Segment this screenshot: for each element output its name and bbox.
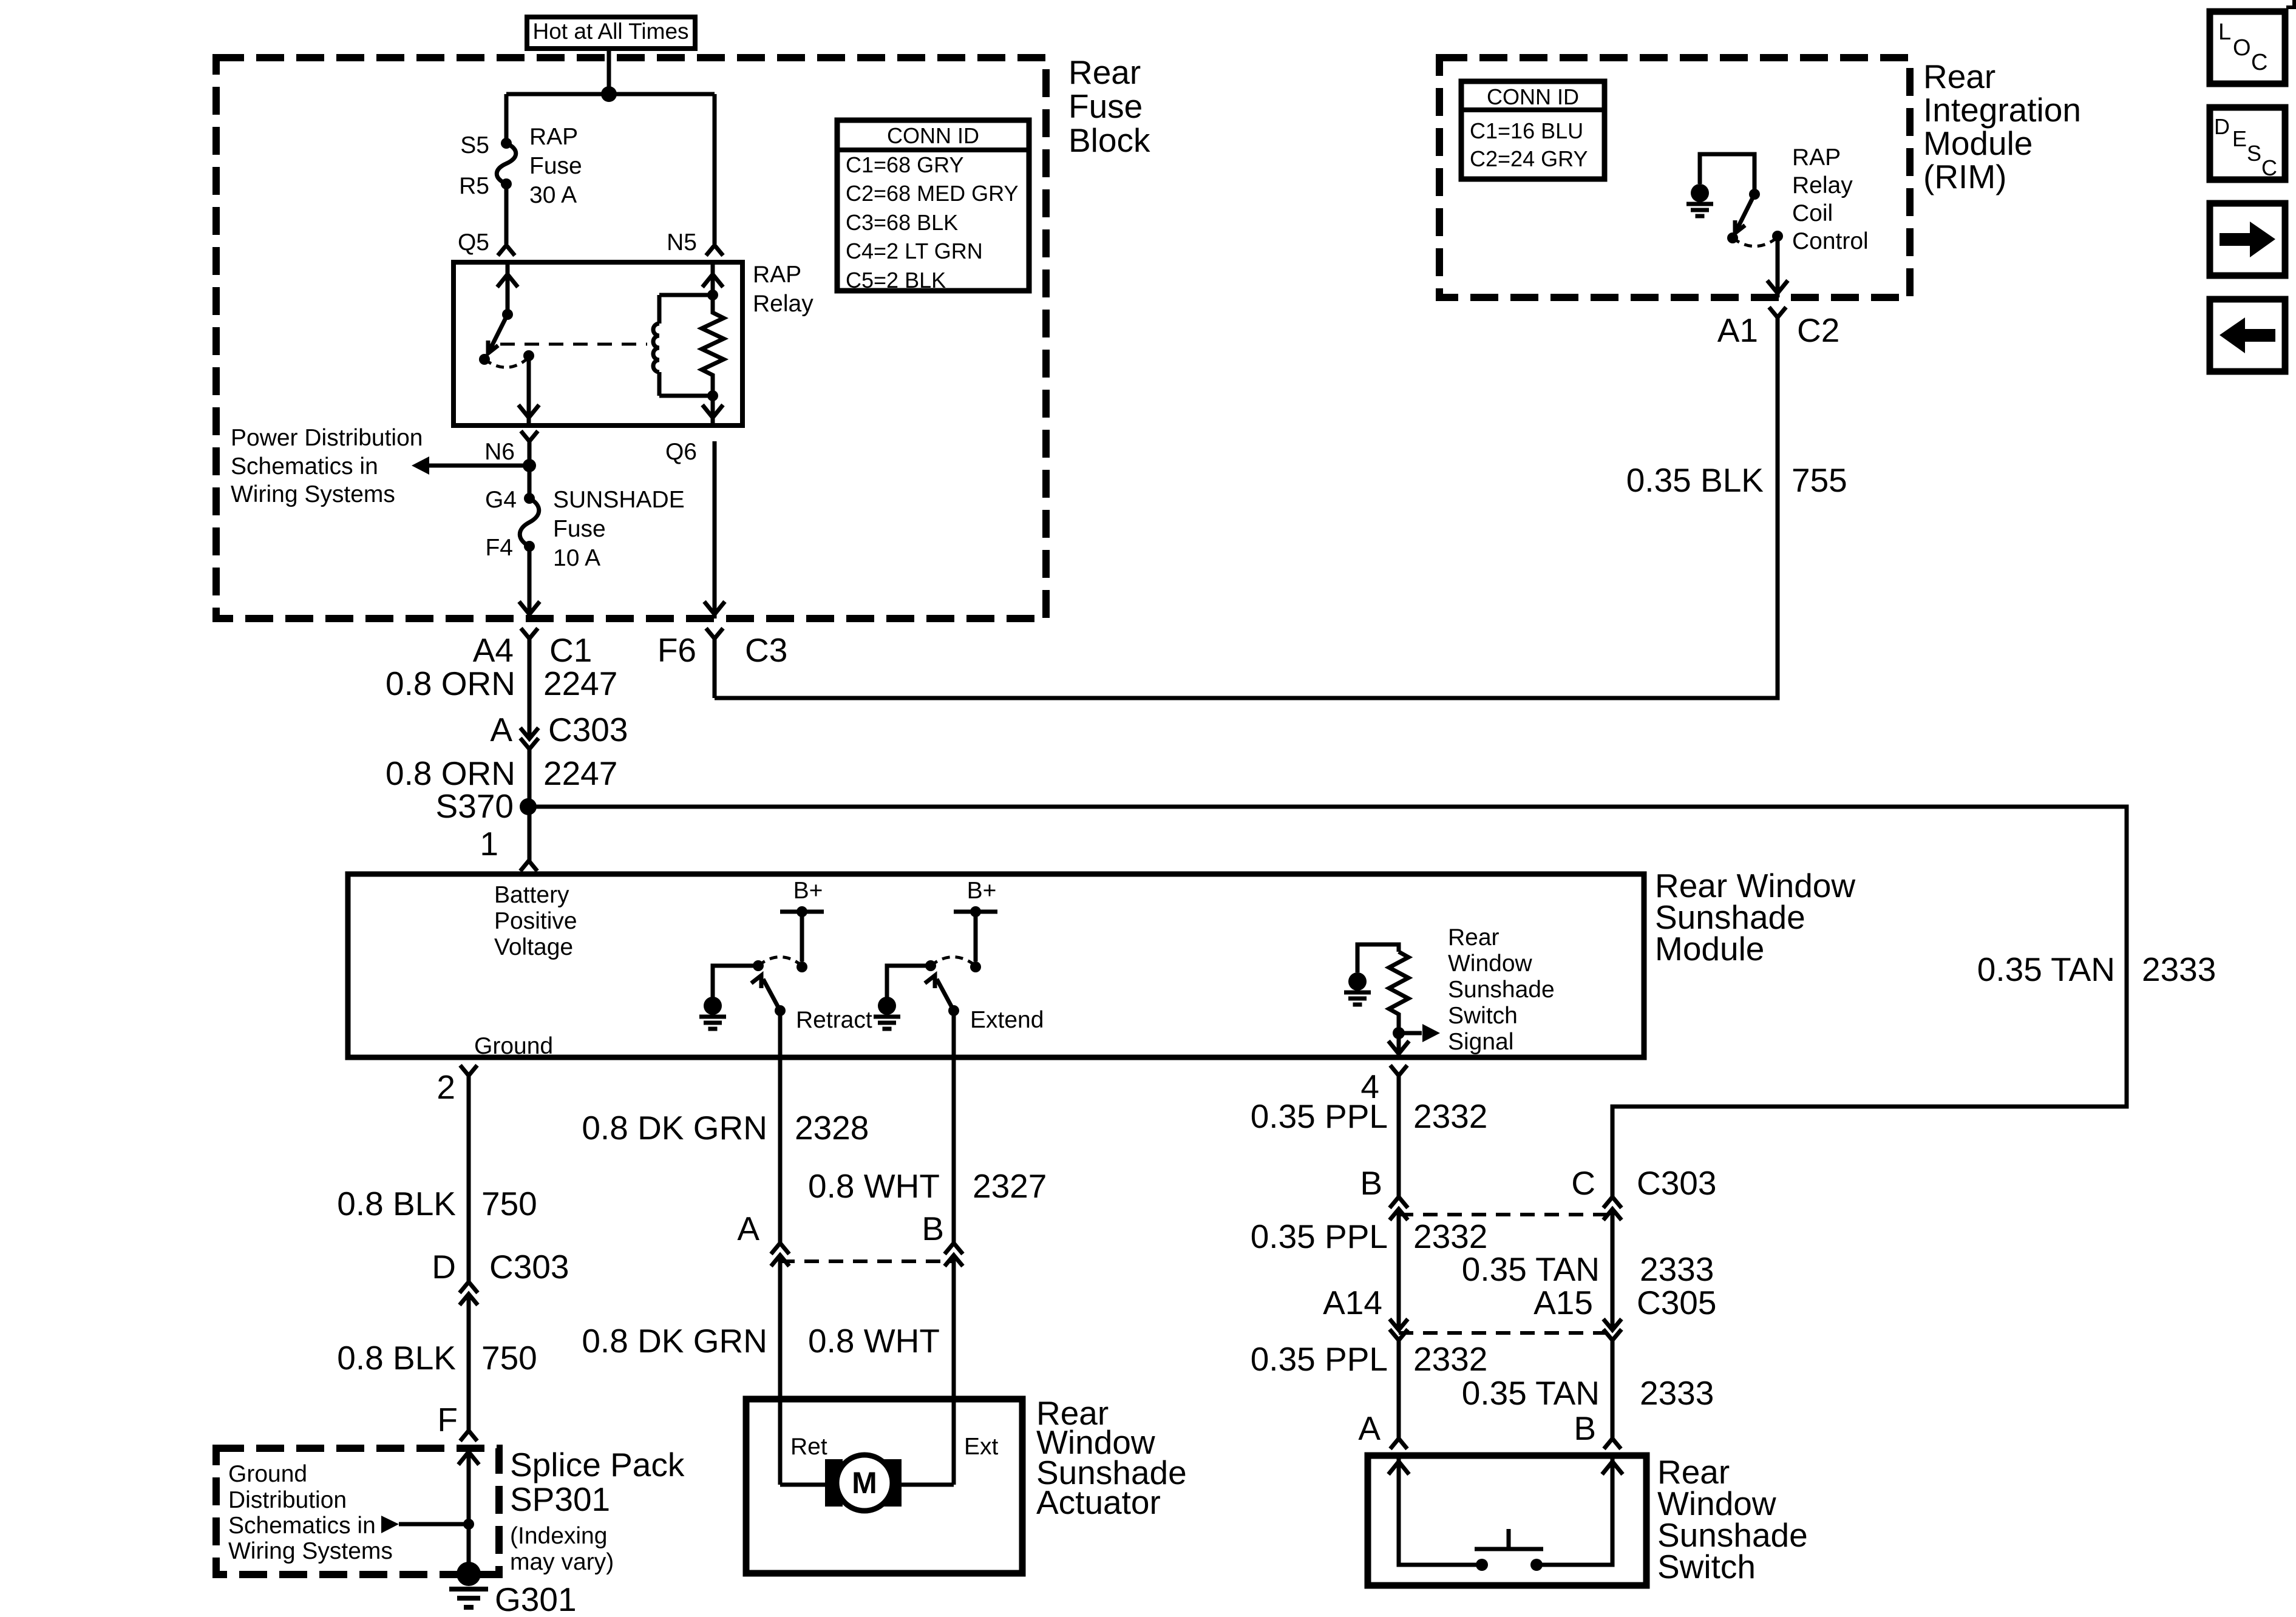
in-line connector C305 pin A14 <box>1390 1319 1408 1340</box>
fuse: RAP Fuse 30 A element <box>497 143 516 184</box>
in-line connector C303 pin B <box>1390 1197 1408 1220</box>
wire: relay N6 down to SUNSHADE fuse <box>528 441 532 498</box>
wire: S370 branch to sunshade switch feed <box>528 807 2127 1197</box>
RIM ground symbol <box>1686 184 1713 216</box>
svg-text:Schematics in: Schematics in <box>231 453 378 480</box>
wire: C305 A14 to switch pin A <box>1397 1340 1401 1439</box>
switch signal resistor supply wire <box>1357 944 1399 972</box>
ground label G301 <box>495 1581 577 1617</box>
relay switch common contact dot <box>479 354 490 365</box>
retract fixed contact wire <box>800 912 804 961</box>
switch internal wire A with up arrow <box>1388 1456 1476 1565</box>
pushbutton actuator bar <box>1475 1529 1543 1549</box>
extend B+ supply <box>954 878 997 917</box>
RIM output wire down to connector A1 with arrow <box>1767 236 1788 297</box>
pin label A15 at C305 <box>1533 1284 1593 1321</box>
connector fork at fuse block pin F6 <box>706 628 723 639</box>
svg-text:SUNSHADE: SUNSHADE <box>553 487 685 513</box>
svg-text:S5: S5 <box>460 132 489 158</box>
connector fork at relay pin N5 <box>706 245 723 256</box>
switch signal reference arrow <box>1399 1024 1440 1042</box>
relay K: RAP Relay box <box>453 262 742 425</box>
pin label D at C303 <box>432 1248 456 1286</box>
wire label 0.35 PPL 2332 (first) <box>1251 1097 1488 1135</box>
relay pin Q5 entry wire with up arrow <box>497 262 518 314</box>
RIM switch dashed travel arc <box>1733 237 1778 246</box>
retract ground symbol <box>699 997 726 1029</box>
wire: retract 0.8 DK GRN to actuator connector <box>778 1057 783 1243</box>
fuse terminal G4 dot <box>524 493 535 504</box>
svg-text:RAP: RAP <box>753 262 801 288</box>
svg-text:B: B <box>1574 1409 1596 1447</box>
svg-text:755: 755 <box>1792 461 1847 499</box>
svg-text:O: O <box>2233 35 2251 61</box>
svg-text:2327: 2327 <box>973 1167 1047 1205</box>
svg-text:C303: C303 <box>489 1248 569 1286</box>
connector label C1 <box>549 631 592 669</box>
svg-text:30 A: 30 A <box>529 182 577 208</box>
retract movable contact dot <box>775 1005 786 1016</box>
in-line connector C303 pin D <box>460 1282 478 1305</box>
wire: module pin 4 to C303 pin B <box>1397 1076 1401 1197</box>
svg-text:Splice Pack: Splice Pack <box>510 1446 685 1483</box>
svg-text:Ret: Ret <box>790 1434 827 1460</box>
connector fork at switch pin B <box>1604 1439 1621 1449</box>
wire: left branch down to fuse terminal S5 <box>504 94 509 143</box>
svg-text:C: C <box>1571 1164 1595 1202</box>
svg-text:0.35 BLK: 0.35 BLK <box>1626 461 1764 499</box>
retract B+ supply <box>780 878 824 917</box>
svg-text:CONN ID: CONN ID <box>1487 84 1579 109</box>
svg-text:Relay: Relay <box>1792 172 1853 198</box>
svg-text:S370: S370 <box>436 787 514 825</box>
relay coil suppression resistor <box>702 295 724 396</box>
wire label 0.8 DK GRN 2328 <box>582 1109 869 1147</box>
wire label 0.8 BLK 750 (lower) <box>337 1339 537 1377</box>
fuse: SUNSHADE Fuse 10 A element <box>520 498 539 546</box>
wire label 0.35 TAN 2333 (upper) <box>1462 1250 1714 1288</box>
wire: R5 down to relay pin Q5 <box>504 184 509 244</box>
svg-text:(RIM): (RIM) <box>1923 158 2006 195</box>
pin label N5 <box>667 229 697 256</box>
nav icon arrow right <box>2210 203 2285 276</box>
svg-text:CONN ID: CONN ID <box>887 123 979 148</box>
pin label F6 <box>657 631 696 669</box>
svg-text:Block: Block <box>1068 121 1150 159</box>
connector fork at fuse block pin A4 <box>521 628 538 639</box>
Rear Integration Module dashed outline <box>1439 58 1910 297</box>
svg-text:2247: 2247 <box>543 754 617 792</box>
page corner registration mark <box>2286 0 2294 7</box>
svg-text:Fuse: Fuse <box>529 153 582 179</box>
svg-text:Retract: Retract <box>796 1007 872 1033</box>
module label Ground <box>474 1033 553 1059</box>
actuator label Ext <box>964 1434 999 1460</box>
retract common contact dot <box>753 960 764 971</box>
svg-text:SP301: SP301 <box>510 1480 610 1518</box>
svg-text:A14: A14 <box>1323 1284 1382 1321</box>
pin label N6 <box>484 439 515 465</box>
svg-text:Voltage: Voltage <box>494 934 573 960</box>
svg-text:F: F <box>437 1401 458 1439</box>
svg-text:0.8 DK GRN: 0.8 DK GRN <box>582 1322 767 1360</box>
relay pin Q6 exit wire with down arrow <box>702 396 723 425</box>
extend ground symbol <box>874 997 900 1029</box>
svg-text:C2=68 MED GRY: C2=68 MED GRY <box>846 181 1018 206</box>
pin label F <box>437 1401 458 1439</box>
svg-text:C: C <box>2251 50 2267 75</box>
svg-text:C303: C303 <box>548 711 628 748</box>
svg-text:Module: Module <box>1923 124 2033 162</box>
motor M letter <box>852 1466 877 1500</box>
wire: C303 B down to C305 A14 <box>1397 1209 1401 1330</box>
relay node: coil bottom dot <box>707 390 718 401</box>
svg-text:Ground: Ground <box>474 1033 553 1059</box>
svg-text:(Indexing: (Indexing <box>510 1523 607 1549</box>
pin label B at switch <box>1574 1409 1596 1447</box>
wire: splice pack internal with up arrow <box>458 1448 479 1575</box>
relay output wire to pin N6 with down arrow <box>518 356 539 425</box>
svg-text:A4: A4 <box>473 631 514 669</box>
svg-text:A: A <box>1358 1409 1381 1447</box>
svg-text:Signal: Signal <box>1448 1029 1513 1055</box>
svg-text:A: A <box>737 1210 759 1247</box>
connector label C305 <box>1637 1284 1716 1321</box>
svg-text:N5: N5 <box>667 229 697 256</box>
relay switch output contact dot <box>523 350 534 361</box>
svg-text:D: D <box>2214 114 2230 139</box>
svg-text:C2: C2 <box>1797 311 1839 349</box>
svg-text:Hot at All Times: Hot at All Times <box>532 19 688 44</box>
wire: RAP relay coil control 0.35 BLK 755 <box>715 317 1778 698</box>
in-line connector C305 pin A15 <box>1603 1319 1622 1340</box>
svg-text:2333: 2333 <box>1640 1374 1714 1412</box>
relay switch dashed travel arc <box>484 358 529 367</box>
svg-text:Distribution: Distribution <box>228 1487 347 1513</box>
wire label 0.8 ORN 2247 (lower) <box>385 754 617 792</box>
wire: extend 0.8 WHT to actuator connector <box>952 1057 956 1243</box>
node: power distribution tap dot <box>523 459 536 472</box>
connector fork at splice pack pin F <box>460 1431 477 1441</box>
RIM wire: ground to relay driver switch <box>1700 154 1754 194</box>
svg-text:Power Distribution: Power Distribution <box>231 425 423 451</box>
C303 connector dashed link <box>1399 1213 1612 1216</box>
in-line connector C303 pin A <box>520 728 538 749</box>
splice S370 dot <box>520 798 537 815</box>
C305 connector dashed link <box>1399 1331 1612 1335</box>
module label Extend <box>970 1007 1044 1033</box>
svg-text:C1=16 BLU: C1=16 BLU <box>1470 118 1583 143</box>
svg-text:A1: A1 <box>1717 311 1758 349</box>
pin label C at C303 <box>1571 1164 1595 1202</box>
switch signal pull-down ground symbol <box>1344 972 1371 1005</box>
svg-text:Wiring Systems: Wiring Systems <box>228 1538 393 1564</box>
extend common wire to ground <box>887 966 931 998</box>
pin label 4 <box>1360 1068 1379 1105</box>
switch contact dot A <box>1476 1559 1488 1571</box>
svg-text:2332: 2332 <box>1413 1340 1487 1378</box>
wire: relay Q6 down to fuse block connector F6 <box>704 441 725 619</box>
actuator label Ret <box>790 1434 827 1460</box>
SUNSHADE Fuse value label <box>553 487 685 571</box>
wire from Hot at All Times into fuse block <box>607 49 611 94</box>
switch signal sense resistor <box>1389 952 1408 1033</box>
svg-text:B+: B+ <box>967 878 997 904</box>
svg-text:Actuator: Actuator <box>1036 1483 1161 1521</box>
svg-text:Q5: Q5 <box>458 229 489 256</box>
svg-text:C3: C3 <box>745 631 787 669</box>
svg-text:C303: C303 <box>1637 1164 1716 1202</box>
module label Retract <box>796 1007 872 1033</box>
svg-text:RAP: RAP <box>529 124 578 150</box>
wire: extend output inside module <box>952 1011 956 1057</box>
svg-text:2333: 2333 <box>2142 951 2216 988</box>
svg-text:0.8 ORN: 0.8 ORN <box>385 665 515 702</box>
connector label C2 <box>1797 311 1839 349</box>
wire: N5 branch down to relay <box>713 94 717 244</box>
retract fixed contact dot <box>796 961 807 972</box>
wire label 0.8 WHT (lower) <box>808 1322 940 1360</box>
Rear Fuse Block name label <box>1068 53 1150 159</box>
svg-text:0.8 ORN: 0.8 ORN <box>385 754 515 792</box>
extend fixed contact wire <box>974 912 978 961</box>
motor M: wiring stubs <box>780 1483 954 1487</box>
RAP Relay Coil Control label <box>1792 144 1869 254</box>
svg-text:B: B <box>1360 1164 1382 1202</box>
svg-text:2247: 2247 <box>543 665 617 702</box>
svg-text:0.35 PPL: 0.35 PPL <box>1251 1218 1388 1255</box>
connector label C303 <box>548 711 628 748</box>
wire: 0.8 DK GRN into actuator <box>778 1255 783 1485</box>
svg-text:0.35 TAN: 0.35 TAN <box>1977 951 2115 988</box>
reference text: Power Distribution Schematics in Wiring Systems <box>231 425 423 507</box>
fuse terminal S5 dot <box>501 138 512 149</box>
wire label 0.35 BLK 755 <box>1626 461 1847 499</box>
svg-text:L: L <box>2218 19 2231 45</box>
svg-text:0.35 PPL: 0.35 PPL <box>1251 1097 1388 1135</box>
pin label Q6 <box>665 439 697 465</box>
fuse terminal F4 dot <box>524 541 535 552</box>
nav icon LOC <box>2210 12 2285 84</box>
in-line connector at actuator pin B <box>945 1243 963 1266</box>
svg-text:Relay: Relay <box>753 291 813 317</box>
Rear Window Sunshade Switch box <box>1368 1456 1646 1585</box>
relay pin N5 entry wire with up arrow <box>702 262 723 295</box>
terminal label F4 <box>485 535 513 561</box>
RIM switch fixed contact dot <box>1749 189 1760 200</box>
wire label 0.8 DK GRN (lower) <box>582 1322 767 1360</box>
svg-text:Switch: Switch <box>1448 1003 1518 1029</box>
wire: switch signal to module pin 4 <box>1388 1033 1409 1057</box>
svg-text:750: 750 <box>481 1185 537 1222</box>
node: battery feed junction <box>601 86 617 102</box>
RIM CONN ID table <box>1461 81 1605 179</box>
svg-text:A15: A15 <box>1533 1284 1593 1321</box>
svg-text:RAP: RAP <box>1792 144 1841 171</box>
svg-text:0.8 WHT: 0.8 WHT <box>808 1167 940 1205</box>
wire label 0.35 TAN 2333 (lower) <box>1462 1374 1714 1412</box>
svg-text:2332: 2332 <box>1413 1218 1487 1255</box>
ground G301 symbol <box>449 1562 488 1607</box>
terminal label R5 <box>459 173 489 199</box>
wire label 0.8 ORN 2247 (upper) <box>385 665 617 702</box>
pin label B at C303 <box>1360 1164 1382 1202</box>
switch contact dot B <box>1530 1559 1543 1571</box>
extend movable contact dot <box>948 1005 959 1016</box>
wire label 0.35 PPL 2332 (second) <box>1251 1218 1488 1255</box>
pin label A4 <box>473 631 514 669</box>
svg-text:Fuse: Fuse <box>553 516 606 542</box>
connector fork at module pin 2 <box>460 1065 477 1076</box>
Rear Window Sunshade Module name label <box>1655 867 1855 968</box>
RAP Fuse value label <box>529 124 582 208</box>
pin label A at switch <box>1358 1409 1381 1447</box>
pin label B at actuator connector <box>922 1210 944 1247</box>
svg-text:D: D <box>432 1248 456 1286</box>
motor M: armature circle <box>837 1455 892 1511</box>
module input label Battery Positive Voltage <box>494 882 577 960</box>
svg-text:2333: 2333 <box>1640 1250 1714 1288</box>
svg-text:Fuse: Fuse <box>1068 87 1143 125</box>
svg-text:Control: Control <box>1792 228 1869 254</box>
Splice Pack SP301 name label <box>510 1446 685 1575</box>
svg-text:A: A <box>490 711 512 748</box>
power feed label box: Hot at All Times <box>527 17 695 49</box>
svg-text:0.8 DK GRN: 0.8 DK GRN <box>582 1109 767 1147</box>
svg-text:Window: Window <box>1448 951 1533 977</box>
connector fork at relay pin N6 <box>521 431 538 441</box>
wire: A4 down to C303 pin A <box>528 639 532 739</box>
svg-text:M: M <box>852 1466 877 1500</box>
Rear Integration Module name label <box>1923 58 2081 195</box>
svg-text:1: 1 <box>480 825 498 863</box>
wire: F4 down to fuse block connector A4 <box>519 546 540 619</box>
reference text: Ground Distribution Schematics in Wiring Systems <box>228 1461 393 1564</box>
pin label A at actuator connector <box>737 1210 759 1247</box>
relay node: coil top dot <box>707 290 718 300</box>
svg-text:0.35 PPL: 0.35 PPL <box>1251 1340 1388 1378</box>
svg-text:Extend: Extend <box>970 1007 1044 1033</box>
svg-text:C1=68 GRY: C1=68 GRY <box>846 152 963 177</box>
wire: C305 A15 to switch pin B <box>1611 1340 1615 1439</box>
svg-text:Wiring Systems: Wiring Systems <box>231 481 395 507</box>
connector label C303 (right) <box>1637 1164 1716 1202</box>
motor M: brush blocks <box>825 1459 902 1507</box>
svg-text:Rear: Rear <box>1448 924 1500 951</box>
connector fork at module pin 1 <box>520 861 537 871</box>
svg-text:Module: Module <box>1655 930 1764 968</box>
wire label 0.35 PPL 2332 (third) <box>1251 1340 1488 1378</box>
wire: C303 C down to C305 A15 <box>1611 1209 1615 1330</box>
svg-text:C4=2 LT GRN: C4=2 LT GRN <box>846 239 983 263</box>
switch internal wire B with up arrow <box>1542 1456 1623 1565</box>
svg-text:Rear: Rear <box>1068 53 1141 91</box>
svg-text:R5: R5 <box>459 173 489 199</box>
svg-text:S: S <box>2247 141 2261 166</box>
fuse block CONN ID table <box>837 120 1029 293</box>
pin label 2 <box>436 1068 455 1106</box>
Rear Fuse Block dashed outline <box>216 58 1046 619</box>
wire: F6 to RIM junction <box>713 639 717 698</box>
svg-text:E: E <box>2232 126 2247 151</box>
svg-text:G301: G301 <box>495 1581 577 1617</box>
svg-text:2328: 2328 <box>795 1109 869 1147</box>
retract switch arm <box>752 975 781 1011</box>
extend common contact dot <box>925 960 936 971</box>
RIM switch output contact dot <box>1772 231 1783 242</box>
node: switch signal junction dot <box>1393 1027 1405 1039</box>
svg-text:0.8 BLK: 0.8 BLK <box>337 1339 456 1377</box>
svg-text:Sunshade: Sunshade <box>1448 977 1555 1003</box>
wire: 0.8 WHT into actuator <box>952 1255 956 1485</box>
svg-text:0.8 WHT: 0.8 WHT <box>808 1322 940 1360</box>
Splice Pack SP301 dashed outline <box>216 1448 499 1575</box>
connector fork at module pin 4 <box>1390 1065 1407 1076</box>
wire: C303 down to splice S370 <box>528 749 532 861</box>
actuator connector dashed link <box>780 1259 954 1263</box>
module label Rear Window Sunshade Switch Signal <box>1448 924 1555 1055</box>
wire: feed bus to RAP fuse and RAP relay pin N5 <box>506 92 715 97</box>
svg-text:B+: B+ <box>793 878 823 904</box>
svg-text:F4: F4 <box>485 535 513 561</box>
pin label Q5 <box>458 229 489 256</box>
wire: reference arrow to Power Distribution schematics <box>412 456 529 475</box>
svg-text:N6: N6 <box>484 439 515 465</box>
pin label 1 <box>480 825 498 863</box>
svg-text:B: B <box>922 1210 944 1247</box>
retract dashed travel arc <box>758 957 802 966</box>
svg-text:Battery: Battery <box>494 882 569 908</box>
wire: C303 pin D down to splice pack <box>467 1294 471 1431</box>
RAP Relay name label <box>753 262 813 317</box>
Rear Window Sunshade Actuator name label <box>1036 1394 1187 1521</box>
nav icon DESC <box>2210 107 2285 180</box>
svg-text:0.35 TAN: 0.35 TAN <box>1462 1250 1600 1288</box>
svg-text:0.35 TAN: 0.35 TAN <box>1462 1374 1600 1412</box>
fuse terminal R5 dot <box>501 178 512 189</box>
terminal label S5 <box>460 132 489 158</box>
svg-text:Ground: Ground <box>228 1461 307 1487</box>
connector fork at switch pin A <box>1390 1439 1407 1449</box>
svg-text:C2=24 GRY: C2=24 GRY <box>1470 146 1588 171</box>
RIM switch common contact dot <box>1727 232 1738 243</box>
svg-text:0.8 BLK: 0.8 BLK <box>337 1185 456 1222</box>
node: splice junction dot <box>463 1519 474 1530</box>
in-line connector C303 pin C <box>1603 1197 1622 1220</box>
wire label 0.35 TAN 2333 (branch) <box>1977 951 2216 988</box>
svg-text:Rear: Rear <box>1923 58 1995 95</box>
connector label C303 at D <box>489 1248 569 1286</box>
wire: module pin 2 down to C303 pin D <box>467 1076 471 1282</box>
relay coil <box>653 295 713 396</box>
svg-text:C3=68 BLK: C3=68 BLK <box>846 210 958 235</box>
svg-text:Ext: Ext <box>964 1434 999 1460</box>
connector fork at relay pin Q5 <box>498 245 515 256</box>
extend switch arm <box>925 975 954 1011</box>
connector label C3 <box>745 631 787 669</box>
wire label 0.8 WHT 2327 <box>808 1167 1047 1205</box>
extend fixed contact dot <box>970 961 981 972</box>
svg-text:C5=2 BLK: C5=2 BLK <box>846 268 946 293</box>
terminal label G4 <box>485 487 517 513</box>
svg-text:2: 2 <box>436 1068 455 1106</box>
relay switch fixed contact dot <box>502 309 513 320</box>
svg-text:C305: C305 <box>1637 1284 1716 1321</box>
splice label S370 <box>436 787 514 825</box>
Rear Window Sunshade Actuator box <box>746 1399 1022 1573</box>
svg-text:750: 750 <box>481 1339 537 1377</box>
svg-text:Integration: Integration <box>1923 91 2081 129</box>
